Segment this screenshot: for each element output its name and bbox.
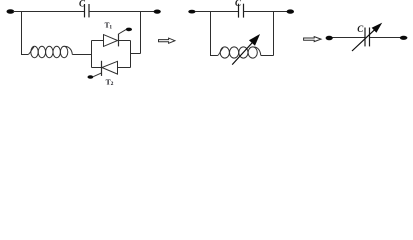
wire left vertical drop (middle circuit) — [211, 12, 218, 56]
wire top rail right segment (left circuit) — [89, 11, 154, 13]
wire T2 cathode lead (left) — [92, 67, 102, 69]
svg-text:C: C — [357, 24, 364, 34]
terminal node dot (middle circuit, right) — [287, 9, 294, 13]
svg-text:C: C — [235, 0, 242, 8]
variable-inductor arrow head — [250, 35, 259, 45]
thyristor T1 (triangle + cathode bar) — [104, 34, 119, 47]
svg-text:T1: T1 — [105, 22, 113, 31]
gate lead T2 — [93, 73, 101, 77]
wire block output connector — [131, 53, 141, 55]
terminal node dot (variable capacitor, left) — [326, 36, 333, 41]
variable-capacitor arrow shaft — [352, 30, 374, 51]
wire T1 branch anode lead — [92, 40, 104, 42]
svg-text:T2: T2 — [106, 77, 114, 87]
wire left lead (variable capacitor) — [333, 37, 365, 39]
wire main right vertical to top rail — [140, 12, 142, 54]
variable-capacitor arrow head — [373, 24, 382, 32]
wire T1 cathode lead — [119, 40, 131, 42]
wire bottom rail to right vertical (middle circuit) — [261, 55, 274, 57]
wire top rail right segment (middle circuit) — [244, 11, 288, 13]
terminal node dot (left circuit, left) — [6, 9, 14, 14]
wire top rail left segment (middle circuit) — [195, 11, 239, 13]
arrow implies (first) — [159, 38, 175, 43]
gate terminal dot T1 — [126, 28, 132, 32]
gate terminal dot T2 — [88, 75, 94, 79]
wire thyristor block left vertical — [91, 41, 93, 68]
capacitor C (middle circuit) — [239, 4, 244, 18]
wire T2 anode lead (right) — [118, 67, 131, 69]
wire right vertical (middle circuit) — [273, 12, 275, 56]
gate lead T1 — [119, 30, 127, 34]
inductor L (coil, 5 loops) — [28, 46, 72, 57]
capacitor C (left circuit) — [85, 4, 90, 17]
terminal node dot (variable capacitor, right) — [400, 36, 408, 40]
wire right lead (variable capacitor) — [370, 37, 401, 39]
terminal node dot (middle circuit, left) — [188, 10, 195, 14]
variable-inductor arrow shaft — [232, 43, 252, 65]
svg-text:C: C — [79, 0, 86, 8]
wire top rail left segment (left circuit) — [13, 11, 84, 13]
wire thyristor block right vertical — [130, 41, 132, 68]
terminal node dot (left circuit, right) — [154, 10, 161, 14]
wire left vertical drop to inductor — [22, 12, 29, 55]
thyristor T2 (cathode bar + triangle pointing left) — [102, 61, 118, 76]
variable inductor coil (4 loops) — [218, 47, 261, 58]
arrow implies (second) — [304, 37, 321, 42]
wire coil to thyristor block — [72, 54, 91, 56]
variable capacitor C plates — [365, 28, 370, 47]
